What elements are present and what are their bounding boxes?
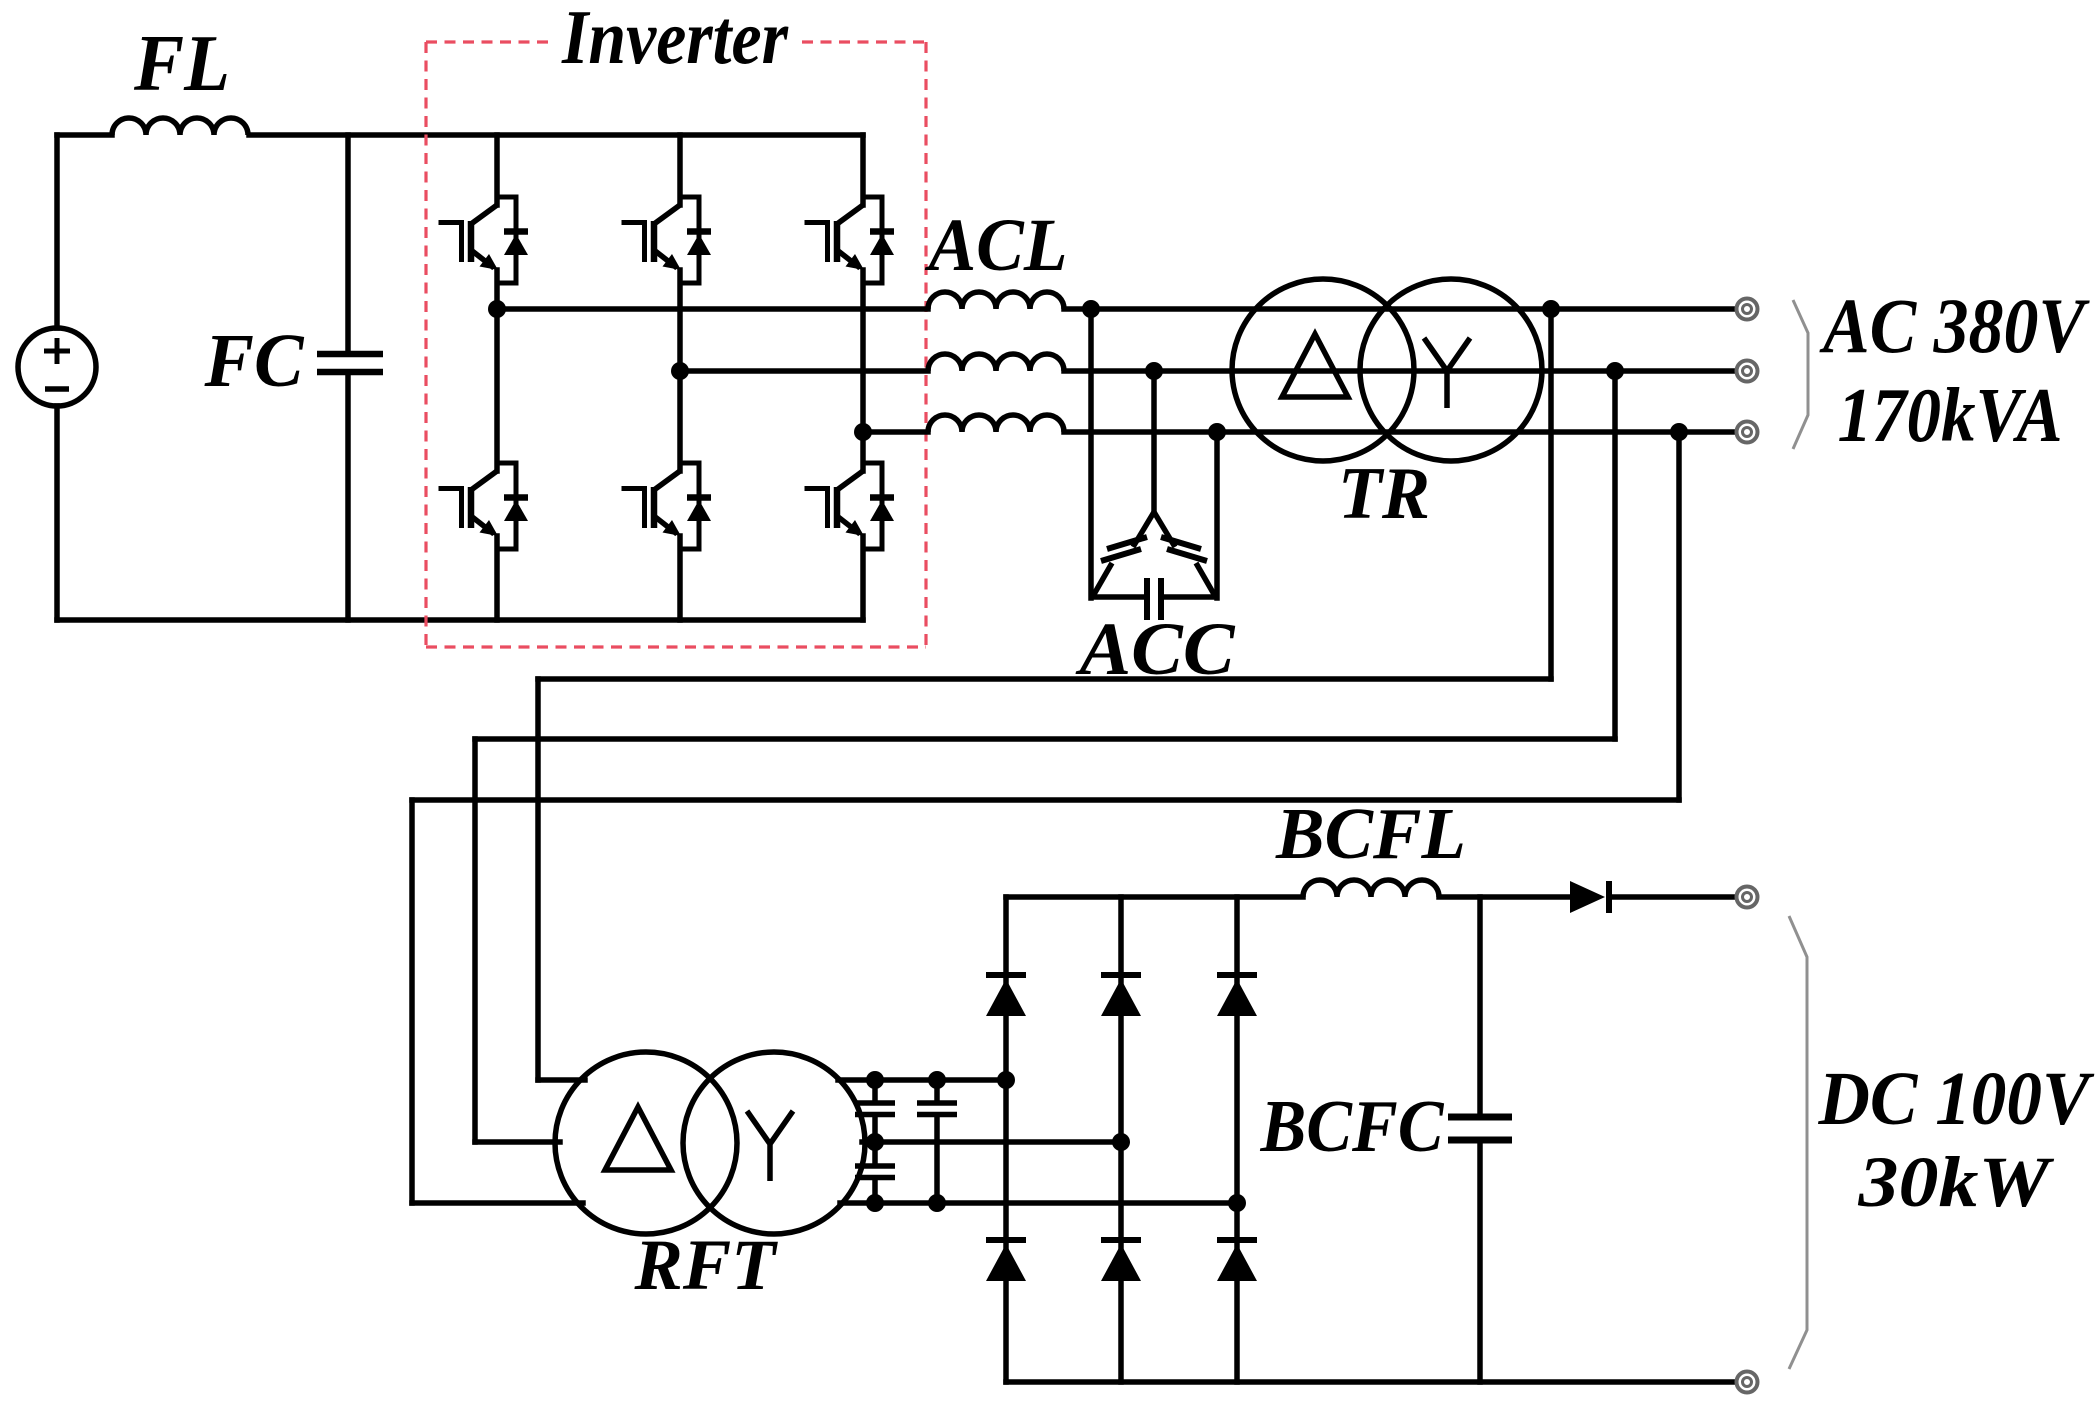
svg-text:RFT: RFT: [633, 1225, 778, 1305]
capacitor FC: [345, 135, 351, 351]
inductor BCFL: [1303, 880, 1439, 897]
node output tap 3: [1670, 423, 1688, 441]
wire rectifier leg 1: [1003, 897, 1009, 1382]
node ACC tap 3: [1208, 423, 1226, 441]
brace AC output: [1793, 300, 1808, 449]
transistor Q6 (lower IGBT): [807, 463, 894, 549]
inductor FL: [112, 118, 248, 135]
wire leg 1 collector segment: [494, 135, 500, 205]
node cap col2 bottom: [928, 1194, 946, 1212]
svg-text:TR: TR: [1338, 453, 1430, 535]
node cap col1 top: [866, 1071, 884, 1089]
terminal AC 3: [1737, 422, 1758, 443]
wire left vertical upper: [54, 135, 60, 328]
wire leg 3 middle segment: [860, 270, 866, 471]
terminal AC 1: [1737, 299, 1758, 320]
node cap col1 mid: [866, 1133, 884, 1151]
diode upper D2: [1101, 972, 1141, 978]
wire RFT output 3: [840, 1200, 1237, 1206]
wire top bus left segment: [57, 132, 112, 138]
wire rectifier leg 3: [1234, 897, 1240, 1382]
diode lower D5: [1101, 1237, 1141, 1243]
transformer TR: [1232, 279, 1542, 461]
inverter dashed box: [424, 42, 427, 647]
wire phase 2 to terminal: [1064, 368, 1736, 374]
node phase 2 junction: [671, 362, 689, 380]
wire RFT output 1: [838, 1077, 1006, 1083]
transistor Q3 (upper IGBT): [807, 197, 894, 283]
wire leg 2 collector segment: [677, 135, 683, 205]
node bridge phase 3: [1228, 1194, 1246, 1212]
svg-text:BCFL: BCFL: [1275, 793, 1466, 874]
inductor ACL phase 3: [928, 415, 1064, 432]
wire leg 3 emitter segment: [860, 536, 866, 620]
transistor Q2 (upper IGBT): [624, 197, 711, 283]
capacitor column 2: [934, 1080, 940, 1100]
terminal AC 2: [1737, 361, 1758, 382]
transistor Q5 (lower IGBT): [624, 463, 711, 549]
terminal DC minus: [1737, 1372, 1758, 1393]
wire leg 1 emitter segment: [494, 536, 500, 620]
wire ACC middle drop: [1151, 371, 1157, 512]
capacitor column 1: [872, 1080, 878, 1100]
wire leg 2 emitter segment: [677, 536, 683, 620]
wire ACC right drop: [1214, 432, 1220, 598]
wire bottom bus: [57, 617, 863, 623]
dc source V1: [18, 328, 96, 406]
svg-text:BCFC: BCFC: [1260, 1086, 1445, 1168]
wire phase 1 to ACL: [497, 306, 928, 312]
node bridge phase 2: [1112, 1133, 1130, 1151]
svg-text:DC 100V: DC 100V: [1818, 1056, 2095, 1141]
wire after BCFL: [1439, 894, 1569, 900]
terminal DC plus: [1737, 887, 1758, 908]
wire to DC+ terminal: [1612, 894, 1736, 900]
wire leg 1 middle segment: [494, 270, 500, 471]
svg-text:30kW: 30kW: [1857, 1142, 2055, 1222]
diode upper D1: [986, 972, 1026, 978]
diode upper D3: [1217, 972, 1257, 978]
wire leg 3 collector segment: [860, 135, 866, 205]
node phase 3 junction: [854, 423, 872, 441]
diode output D7: [1570, 881, 1605, 913]
wire route 2: [1612, 371, 1618, 739]
node bridge phase 1: [997, 1071, 1015, 1089]
svg-text:FL: FL: [133, 18, 230, 108]
wire phase 2 to ACL: [680, 368, 928, 374]
wire phase 1 to terminal: [1064, 306, 1736, 312]
node cap col1 bottom: [866, 1194, 884, 1212]
node phase 1 junction: [488, 300, 506, 318]
transistor Q4 (lower IGBT): [441, 463, 528, 549]
svg-text:FC: FC: [204, 319, 305, 403]
wire rectifier leg 2: [1118, 897, 1124, 1382]
diode lower D4: [986, 1237, 1026, 1243]
wire ACC left drop: [1088, 309, 1094, 598]
transformer RFT: [555, 1052, 865, 1234]
node output tap 1: [1542, 300, 1560, 318]
plus sign: [44, 349, 70, 354]
wire route 3: [1676, 432, 1682, 800]
node ACC tap 2: [1145, 362, 1163, 380]
minus sign: [45, 386, 69, 392]
inductor ACL phase 2: [928, 354, 1064, 371]
node output tap 2: [1606, 362, 1624, 380]
node ACC tap 1: [1082, 300, 1100, 318]
transistor Q1 (upper IGBT): [441, 197, 528, 283]
node cap col2 top: [928, 1071, 946, 1089]
wire left vertical lower: [54, 406, 60, 620]
svg-text:Inverter: Inverter: [561, 0, 789, 80]
svg-text:170kVA: 170kVA: [1838, 372, 2063, 458]
wire leg 2 middle segment: [677, 270, 683, 471]
wire phase 3 to terminal: [1064, 429, 1736, 435]
wire phase 3 to ACL: [863, 429, 928, 435]
wire route 1: [1548, 309, 1554, 679]
capacitor ACC delta bank: [1093, 512, 1216, 620]
wire rectifier bottom bus: [1006, 1379, 1736, 1385]
brace DC output: [1789, 916, 1807, 1369]
svg-text:AC 380V: AC 380V: [1819, 282, 2091, 369]
inductor ACL phase 1: [928, 292, 1064, 309]
wire top bus: [249, 132, 863, 138]
wire rectifier top bus: [1006, 894, 1303, 900]
wire RFT output 2: [862, 1139, 1121, 1145]
svg-text:ACL: ACL: [925, 204, 1068, 287]
capacitor BCFC: [1477, 897, 1483, 1113]
diode lower D6: [1217, 1237, 1257, 1243]
